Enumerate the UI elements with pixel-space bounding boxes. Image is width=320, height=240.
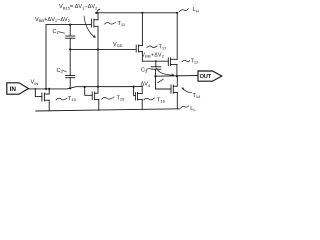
svg-text:OUT: OUT — [200, 74, 212, 80]
svg-text:LH: LH — [193, 7, 199, 13]
svg-text:VBB+ΔV2: VBB+ΔV2 — [142, 52, 165, 58]
svg-text:T16: T16 — [157, 97, 166, 103]
svg-text:C3: C3 — [141, 68, 148, 74]
svg-text:T15: T15 — [117, 95, 126, 101]
svg-text:C2: C2 — [57, 68, 64, 74]
svg-text:VIN: VIN — [31, 80, 39, 86]
svg-text:IN: IN — [10, 86, 17, 93]
svg-text:T11: T11 — [118, 21, 126, 27]
svg-text:T12: T12 — [191, 58, 200, 64]
svg-text:T14: T14 — [193, 93, 202, 99]
svg-text:VGE: VGE — [113, 42, 123, 48]
svg-text:T13: T13 — [68, 96, 77, 102]
svg-text:C1: C1 — [53, 29, 60, 35]
svg-text:VB15= ΔV1−ΔV2: VB15= ΔV1−ΔV2 — [59, 4, 98, 10]
svg-text:LL: LL — [190, 106, 196, 112]
svg-text:ΔV4: ΔV4 — [141, 82, 151, 88]
svg-text:VBB+ΔV1−ΔV2: VBB+ΔV1−ΔV2 — [35, 17, 71, 23]
svg-text:T17: T17 — [159, 44, 168, 50]
